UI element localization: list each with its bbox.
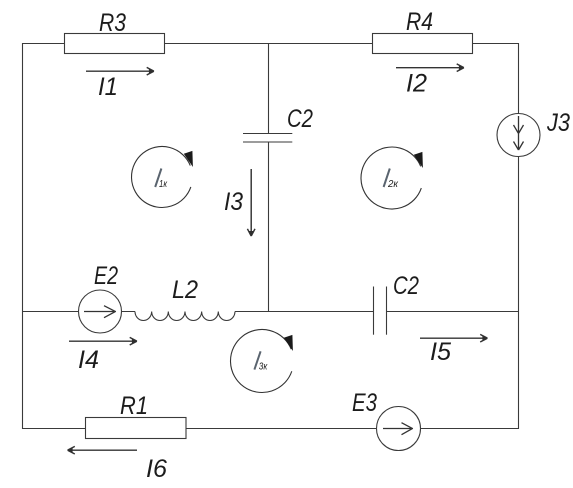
svg-text:E3: E3 bbox=[352, 389, 377, 417]
wire middle horizontal left segment bbox=[22, 311, 135, 313]
svg-text:R3: R3 bbox=[99, 9, 126, 37]
capacitor C2 (vertical branch) bbox=[243, 134, 292, 143]
wire middle vertical branch lower segment bbox=[268, 142, 270, 312]
wire middle horizontal right segment bbox=[387, 311, 519, 313]
svg-text:J3: J3 bbox=[546, 109, 570, 137]
current arrow I4 bbox=[69, 337, 137, 345]
label I3k bbox=[254, 351, 260, 369]
svg-text:3к: 3к bbox=[259, 361, 269, 372]
wire top (node between R3, C2-branch, R4) bbox=[22, 43, 519, 45]
svg-text:R4: R4 bbox=[406, 8, 433, 36]
svg-text:E2: E2 bbox=[94, 262, 118, 290]
svg-text:I1: I1 bbox=[98, 73, 118, 101]
wire middle vertical branch upper segment bbox=[268, 43, 270, 134]
loop current I3k (mesh 3) bbox=[230, 329, 292, 392]
current arrow I1 bbox=[86, 67, 154, 75]
wire bottom branch bbox=[22, 428, 519, 430]
resistor R1 bbox=[86, 418, 187, 439]
voltage source E3 bbox=[377, 407, 421, 451]
label I2k bbox=[384, 169, 390, 188]
current arrow I5 bbox=[420, 334, 487, 342]
current arrow I2 bbox=[396, 64, 464, 72]
svg-text:C2: C2 bbox=[287, 105, 313, 133]
voltage source E2 bbox=[79, 290, 122, 333]
inductor L2 bbox=[135, 312, 235, 321]
svg-text:I6: I6 bbox=[146, 455, 167, 483]
current arrow I6 (pointing left) bbox=[68, 446, 137, 454]
loop current I1k (mesh 1) bbox=[132, 146, 193, 207]
wire right branch bbox=[518, 43, 520, 429]
label I1k bbox=[155, 169, 161, 188]
svg-text:2к: 2к bbox=[387, 179, 399, 190]
current arrow I3 bbox=[247, 169, 255, 236]
current source J3 bbox=[497, 114, 540, 157]
wire left branch bbox=[22, 43, 24, 429]
resistor R3 bbox=[65, 34, 165, 54]
wire middle horizontal center segment bbox=[235, 311, 374, 313]
capacitor C2 (middle horizontal branch) bbox=[374, 287, 387, 335]
svg-text:C2: C2 bbox=[393, 272, 419, 300]
svg-text:I4: I4 bbox=[78, 346, 99, 374]
svg-text:I5: I5 bbox=[430, 338, 451, 366]
loop current I2k (mesh 2) bbox=[361, 147, 423, 209]
svg-text:L2: L2 bbox=[172, 276, 198, 304]
svg-text:R1: R1 bbox=[120, 392, 148, 420]
svg-text:I2: I2 bbox=[406, 70, 427, 98]
svg-text:1к: 1к bbox=[159, 179, 168, 190]
svg-text:I3: I3 bbox=[224, 188, 243, 216]
resistor R4 bbox=[373, 34, 473, 54]
